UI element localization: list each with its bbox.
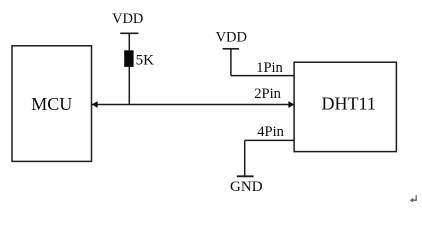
arrowhead into MCU [92, 101, 98, 108]
DHT11 U2 [294, 62, 396, 151]
ground [237, 175, 254, 177]
svg-text:MCU: MCU [31, 94, 72, 114]
paragraph return mark [410, 195, 417, 202]
svg-text:VDD: VDD [216, 30, 247, 46]
svg-text:4Pin: 4Pin [257, 124, 284, 140]
svg-text:DHT11: DHT11 [322, 93, 376, 113]
wire down to ground [244, 140, 246, 176]
svg-text:VDD: VDD [112, 11, 143, 27]
wire VDD to resistor [128, 33, 130, 50]
wire resistor to data net [128, 67, 130, 105]
svg-text:1Pin: 1Pin [256, 60, 283, 76]
svg-text:GND: GND [230, 179, 263, 195]
wire 1Pin to DHT11 [231, 75, 294, 77]
wire 4Pin from DHT11 [245, 139, 294, 141]
svg-text:2Pin: 2Pin [254, 86, 281, 102]
wire VDD down [230, 49, 232, 76]
wire data net 2Pin (bidirectional) [92, 104, 294, 106]
svg-text:5K: 5K [136, 52, 155, 68]
MCU U1 [12, 46, 92, 162]
resistor R1 5K [124, 50, 133, 67]
arrowhead into DHT11 [288, 101, 294, 108]
